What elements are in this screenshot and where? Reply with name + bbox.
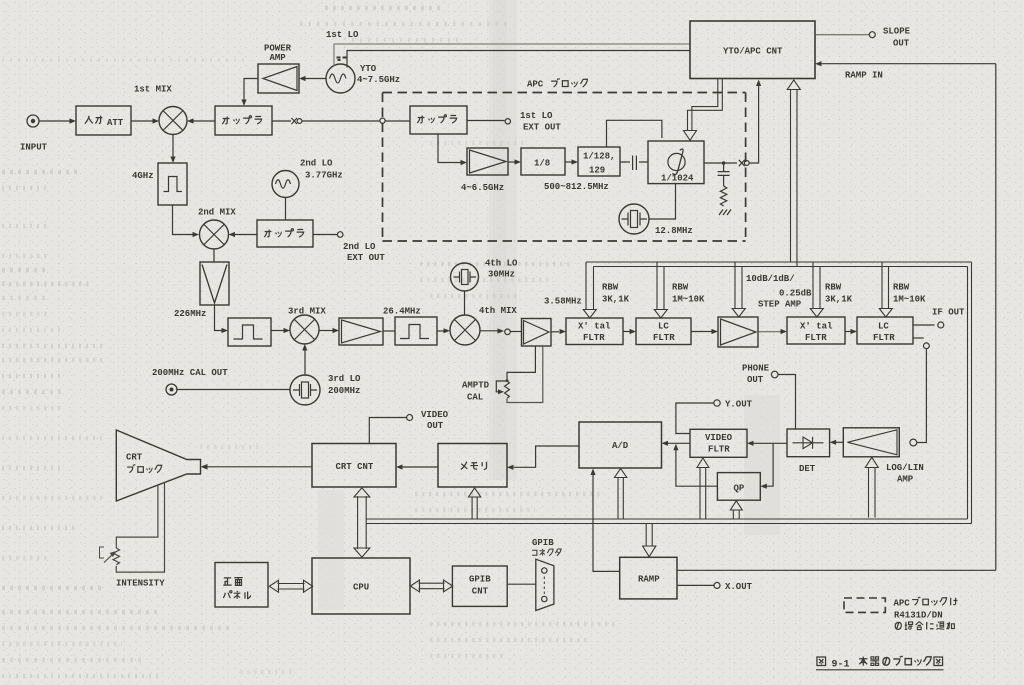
svg-text:GPIB: GPIB (532, 538, 554, 548)
wire ATT to 1st MIX (131, 120, 153, 122)
svg-text:LC: LC (878, 322, 889, 332)
svg-text:26.4MHz: 26.4MHz (383, 307, 421, 317)
connector X.OUT (714, 582, 720, 588)
wire CRT CNT to CRT (207, 466, 312, 468)
wire 1st MIX down to 4GHz filter (172, 135, 174, 158)
wire 3rd LO up to 3rd MIX (304, 350, 306, 375)
svg-text:OUT: OUT (893, 39, 910, 49)
kana カップラ coupler2 (417, 115, 456, 123)
connector circle at LOG/LIN right (910, 439, 917, 446)
crystal oscillator 12.8MHz (619, 204, 649, 234)
qp block QP (717, 473, 760, 501)
hollow double arrow front panel / CPU (269, 580, 312, 592)
svg-text:RBW: RBW (602, 283, 619, 293)
wire amp A3 to BPF2 (383, 330, 395, 332)
svg-text:226MHz: 226MHz (174, 309, 206, 319)
wire VIDEO FLTR to A/D (668, 442, 691, 444)
svg-text:EXT OUT: EXT OUT (347, 253, 385, 263)
node circle after 4th MIX (505, 329, 511, 335)
svg-text:3.77GHz: 3.77GHz (305, 171, 343, 181)
cpu block CPU (312, 558, 410, 614)
APC block dashed boundary (383, 93, 746, 242)
wire 4GHz filter to 2nd MIX (173, 205, 194, 235)
svg-text:3K,1K: 3K,1K (825, 295, 853, 305)
svg-text:0.25dB: 0.25dB (779, 289, 812, 299)
hollow arrow bus down to RAMP (643, 524, 656, 557)
svg-text:A/D: A/D (612, 441, 629, 451)
svg-text:CRT CNT: CRT CNT (336, 462, 374, 472)
mixer 2nd MIX (200, 220, 229, 249)
svg-text:CRT: CRT (126, 453, 143, 463)
svg-text:2nd LO: 2nd LO (300, 159, 333, 169)
svg-text:VIDEO: VIDEO (421, 410, 449, 420)
intensity circuit wires (116, 483, 164, 573)
connector IF OUT (938, 322, 944, 328)
connector 1st LO EXT OUT (505, 119, 510, 124)
svg-text:1st MIX: 1st MIX (134, 85, 172, 95)
svg-text:1/1024: 1/1024 (661, 174, 694, 184)
wire pad to node on APC boundary (302, 120, 380, 122)
gpib controller block GPIB CNT (452, 566, 507, 606)
svg-text:RBW: RBW (672, 283, 689, 293)
arrowhead into CRT CNT (396, 464, 403, 469)
log amp block LOG/LIN AMP (843, 428, 899, 457)
hollow bus YTO/APC CNT down to phase detector (684, 79, 723, 141)
svg-text:FLTR: FLTR (653, 333, 675, 343)
svg-text:LOG/LIN: LOG/LIN (886, 463, 924, 473)
wire 2nd MIX down to 226MHz filter (213, 249, 215, 262)
oscillator YTO 1st LO (326, 64, 355, 93)
arrowhead into A/D right (662, 441, 669, 446)
control bus right verticals (968, 262, 972, 524)
wire XTAL1 to LC1 (623, 331, 630, 333)
connector SLOPE OUT (869, 32, 875, 38)
wire RAMP upper output to right riser (677, 569, 996, 571)
svg-text:AMP: AMP (270, 53, 287, 63)
detector block DET (787, 429, 830, 457)
svg-text:LC: LC (658, 322, 669, 332)
wire BPF1 to 3rd MIX (271, 330, 284, 332)
svg-text:4th MIX: 4th MIX (479, 306, 517, 316)
wire coupler2 down to amp A4 (438, 134, 461, 163)
wire STEP AMP to XTAL FLTR2 (758, 331, 781, 333)
arrowhead into DET (830, 440, 837, 445)
coupling capacitor C1 (620, 156, 648, 171)
svg-text:YTO/APC CNT: YTO/APC CNT (723, 47, 783, 57)
arrowhead into amp A3 (333, 328, 340, 333)
control bus horizontal double line (586, 262, 972, 267)
wire LOG/LIN to DET (836, 441, 844, 443)
svg-text:INPUT: INPUT (20, 143, 48, 153)
hollow arrow RBW to XTAL FLTR2 (810, 262, 823, 317)
divider block 1/128,129 (578, 147, 620, 176)
svg-text:IF OUT: IF OUT (932, 308, 965, 318)
svg-text:X.OUT: X.OUT (725, 582, 753, 592)
svg-text:VIDEO: VIDEO (705, 433, 733, 443)
svg-text:AMP: AMP (897, 475, 914, 485)
mixer 4th MIX (450, 315, 480, 345)
filter BPF2 pulse 26.4MHz (395, 317, 437, 345)
arrowhead into STEP AMP (712, 329, 719, 334)
svg-text:FLTR: FLTR (708, 445, 730, 455)
hollow arrow bus to VIDEO FLTR (697, 458, 709, 519)
hollow arrow bus to LOG/LIN AMP (865, 457, 878, 517)
adc block A/D (579, 422, 662, 468)
wire XTAL2 to LC2 (845, 331, 851, 333)
ramp block RAMP (620, 557, 677, 599)
caption 図9-1 本器のブロック図 (817, 656, 943, 666)
potentiometer arrow INTENSITY (100, 547, 117, 563)
svg-text:AMPTD: AMPTD (462, 381, 490, 391)
connector 2nd LO EXT OUT (337, 232, 343, 238)
arrowhead into 1st MIX right (187, 118, 194, 123)
wire node to YTO/APC CNT bottom (749, 86, 758, 163)
svg-text:Y.OUT: Y.OUT (725, 400, 753, 410)
mixer 1st MIX (159, 107, 187, 135)
labels: bottom section (116, 453, 943, 621)
controller block YTO/APC CNT (690, 21, 815, 79)
hollow arrow bus to A/D (thick) (615, 469, 627, 520)
wire PHONE OUT tap from DET top (778, 375, 795, 430)
wire LC1 to STEP AMP (691, 331, 712, 333)
feedback wire 1/128 top to phase detector top (607, 120, 662, 147)
oscillator 4th LO 30MHz crystal (451, 263, 479, 291)
wire QP output to A/D input line (676, 449, 718, 486)
legend dashed box (844, 598, 885, 612)
wire 1/8 to 1/128 (565, 161, 572, 163)
svg-text:INTENSITY: INTENSITY (116, 579, 165, 589)
amplifier POWER AMP (258, 64, 299, 93)
wire A/D to memory (514, 446, 579, 467)
kanji の場合に追加 (legend line 3) (895, 622, 954, 630)
arrowhead into BPF1 (222, 328, 229, 333)
svg-text:X' tal: X' tal (800, 322, 833, 332)
coupler block カップラ 3 (257, 220, 313, 247)
front panel block 正面パネル (215, 563, 268, 608)
svg-text:CPU: CPU (353, 583, 369, 593)
ghost bleed-through speckle rows (2, 8, 615, 676)
labels: IF chain (544, 274, 965, 343)
hollow arrow to STEP AMP (732, 262, 745, 317)
svg-text:12.8MHz: 12.8MHz (655, 226, 693, 236)
filter block LC FLTR2 (857, 317, 913, 344)
arrowhead into CRT neck (201, 464, 208, 470)
wire LC2 to IF OUT (913, 324, 935, 326)
hollow arrow bus to QP (730, 501, 742, 519)
kana メモリ (memory) (461, 462, 487, 470)
arrowhead into LC FLTR2 (851, 329, 858, 334)
divider block 1/8 (521, 148, 565, 175)
svg-text:1/8: 1/8 (534, 159, 550, 169)
arrowhead into 2nd MIX (193, 232, 200, 237)
svg-text:ATT: ATT (107, 118, 124, 128)
arrowhead into 3rd MIX bottom (302, 344, 307, 351)
svg-text:500~812.5MHz: 500~812.5MHz (544, 182, 609, 192)
arrowhead before pad node (498, 328, 505, 333)
svg-text:4th LO: 4th LO (485, 259, 518, 269)
svg-text:4GHz: 4GHz (132, 171, 154, 181)
wire RAMP to A/D (thin) with arrow (593, 475, 620, 572)
scanner noise band lower-middle (744, 395, 780, 535)
svg-text:FLTR: FLTR (873, 333, 895, 343)
svg-text:3.58MHz: 3.58MHz (544, 297, 582, 307)
phase detector 1/1024 (648, 141, 704, 184)
arrowhead into 3rd MIX (284, 328, 291, 333)
labels: APC block (461, 80, 694, 237)
wire 226MHz filter to BPF1 (215, 305, 223, 331)
arrowhead into POWER AMP (299, 76, 306, 81)
hollow arrow RBW to XTAL FLTR1 (583, 262, 596, 318)
svg-text:OUT: OUT (747, 375, 764, 385)
mixer 3rd MIX (290, 315, 319, 344)
arrowhead into XTAL FLTR1 (560, 329, 567, 334)
potentiometer AMPTD CAL (496, 346, 543, 403)
wire CAL OUT to 3rd LO (177, 389, 290, 391)
hollow bus up into YTO/APC CNT bottom (787, 80, 800, 267)
kana カップラ coupler1 (222, 116, 261, 124)
wire Y.OUT tap (676, 403, 714, 434)
svg-text:R4131D/DN: R4131D/DN (894, 611, 943, 621)
wire phase detector output to node (704, 162, 737, 164)
arrowhead into coupler1 top (241, 100, 246, 107)
arrowhead into LC FLTR1 (630, 329, 637, 334)
svg-text:OUT: OUT (427, 421, 444, 431)
oscillator 2nd LO (272, 171, 299, 198)
filter BPF1 pulse (228, 318, 271, 346)
arrowhead into 2nd MIX right (229, 232, 236, 237)
svg-text:2nd LO: 2nd LO (343, 242, 376, 252)
svg-text:CNT: CNT (472, 587, 489, 597)
wire node down to LOG/LIN input (917, 349, 926, 443)
svg-text:DET: DET (799, 464, 816, 474)
svg-text:2nd MIX: 2nd MIX (198, 208, 236, 218)
filter block XTAL FLTR2 (787, 317, 845, 344)
svg-text:9-1: 9-1 (832, 660, 850, 671)
svg-text:1st LO: 1st LO (520, 111, 553, 121)
filter 4GHz bandpass (158, 163, 187, 205)
oscillator 3rd LO 200MHz crystal (290, 375, 320, 405)
kanji 正面 kana パネル (front panel) (223, 578, 251, 599)
svg-text:FLTR: FLTR (805, 333, 827, 343)
wire RAMP IN from right edge (821, 63, 996, 65)
attenuator block 入力ATT (76, 106, 131, 135)
svg-text:1M~10K: 1M~10K (672, 295, 705, 305)
svg-text:APC: APC (527, 80, 544, 90)
scanner noise band vertical center-left (489, 0, 517, 480)
wire YTO top to YTO/APC CNT (line A) (334, 44, 690, 67)
filter block XTAL FLTR1 (566, 318, 623, 345)
connector VIDEO OUT (407, 415, 413, 421)
wire 2nd LO to coupler3 (285, 198, 287, 221)
memory block メモリ (438, 444, 507, 488)
svg-text:PHONE: PHONE (742, 364, 770, 374)
wire GPIB CNT to connector (507, 583, 536, 585)
kana カップラ coupler3 (264, 229, 303, 237)
capacitor C2 to ground (718, 163, 730, 186)
svg-text:SLOPE: SLOPE (883, 27, 911, 37)
arrowhead into VIDEO FLTR (747, 441, 754, 446)
amplifier A5 (522, 319, 552, 347)
arrowhead into 4GHz filter (170, 157, 175, 164)
arrowhead into ATT (70, 118, 77, 123)
svg-text:GPIB: GPIB (469, 575, 491, 585)
arrowhead up into YTO/APC CNT (756, 80, 761, 87)
connector pad X-circle (292, 118, 302, 124)
boundary pad X-circle on APC edge (739, 160, 749, 166)
wire node to coupler2 (385, 120, 410, 122)
wire 4th LO to 4th MIX (464, 291, 466, 315)
svg-text:EXT OUT: EXT OUT (523, 123, 561, 133)
svg-text:3rd MIX: 3rd MIX (288, 307, 326, 317)
tick marks at YTO top (337, 58, 347, 61)
wire 3rd MIX to amp A3 (319, 330, 333, 332)
amplifier A3 (339, 318, 383, 345)
arrowhead into 1st MIX (153, 118, 160, 123)
wire SLOPE OUT (815, 34, 869, 36)
wire YTO to POWER AMP (305, 78, 326, 80)
svg-text:200MHz CAL OUT: 200MHz CAL OUT (152, 368, 228, 378)
arrowhead into 4th MIX (444, 328, 451, 333)
svg-text:RBW: RBW (893, 283, 910, 293)
control bus bottom double line (366, 519, 971, 524)
kana コネクタ (GPIB connector) (532, 549, 561, 556)
arrowhead into 1/8 (515, 159, 522, 164)
node circle below IF OUT (924, 343, 930, 349)
svg-text:4~7.5GHz: 4~7.5GHz (357, 75, 400, 85)
arrowhead into QP right (760, 484, 767, 489)
caption underline (816, 669, 944, 671)
arrowhead into XTAL FLTR2 (781, 329, 788, 334)
wire amp A5 to XTAL FLTR1 (551, 331, 559, 333)
svg-text:1st LO: 1st LO (326, 30, 359, 40)
arrowhead up at junction (673, 444, 678, 451)
wire branch DET output down to QP (766, 443, 773, 486)
svg-text:X' tal: X' tal (578, 322, 611, 332)
wire node to amp A5 (511, 331, 522, 333)
kana ブロック (APC block label) (551, 78, 587, 87)
wire 12.8MHz to phase detector bottom (649, 184, 676, 219)
kana ブロック (CRT block) (127, 464, 162, 473)
node circle on dashed boundary (380, 118, 385, 123)
wire coupler3 to 2nd LO EXT OUT (313, 234, 337, 236)
labels: video section (421, 364, 924, 593)
wire memory to CRT CNT (403, 466, 439, 468)
svg-text:RAMP: RAMP (638, 575, 660, 585)
resistor INTENSITY (113, 548, 119, 565)
gpib connector D-sub (536, 559, 554, 610)
labels: top-left chain (20, 30, 518, 403)
svg-text:RBW: RBW (825, 283, 842, 293)
coupler block カップラ 2 (410, 106, 467, 134)
labels: YTO/APC CNT and right (723, 27, 911, 81)
wire VIDEO OUT tap (369, 418, 406, 444)
kana ブロックは (legend line 1) (912, 597, 957, 606)
svg-text:FLTR: FLTR (583, 333, 605, 343)
wire 4th MIX to pad node (480, 330, 498, 332)
svg-text:STEP AMP: STEP AMP (758, 300, 802, 310)
svg-text:RAMP IN: RAMP IN (845, 71, 883, 81)
crt funnel CRTブロック (116, 430, 200, 501)
arrowhead into 1/128 (572, 159, 579, 164)
svg-text:1/128,: 1/128, (583, 152, 615, 162)
wire POWER AMP to coupler1 (244, 79, 258, 101)
svg-text:3K,1K: 3K,1K (602, 295, 630, 305)
svg-text:CAL: CAL (467, 393, 483, 403)
svg-text:10dB/1dB/: 10dB/1dB/ (746, 274, 795, 284)
crt controller block CRT CNT (312, 444, 396, 488)
connector 200MHz CAL OUT (166, 384, 177, 395)
svg-text:129: 129 (589, 166, 605, 176)
kanji 入力 (input ATT) (85, 116, 103, 124)
hollow arrow RBW to LC FLTR1 (654, 262, 667, 318)
svg-text:YTO: YTO (360, 64, 377, 74)
wire RAMP IN vertical down right side (995, 64, 997, 571)
junction dot (722, 161, 726, 165)
filter block LC FLTR1 (636, 318, 691, 345)
svg-text:3rd LO: 3rd LO (328, 374, 361, 384)
wire coupler1 right to pad (272, 120, 291, 122)
wire coupler3 to 2nd MIX (235, 234, 258, 236)
INPUT connector J1 (27, 115, 39, 127)
arrowhead into YTO/APC CNT right (815, 61, 822, 66)
wire RAMP to X.OUT (677, 584, 714, 586)
filter 226MHz bandpass (200, 262, 229, 305)
resistor R1 (720, 186, 726, 206)
svg-text:APC: APC (894, 599, 911, 609)
wire DET to VIDEO FLTR (753, 442, 787, 444)
connector Y.OUT (714, 400, 720, 406)
video filter block VIDEO FLTR (690, 429, 747, 457)
connector PHONE OUT (771, 371, 778, 378)
svg-text:POWER: POWER (264, 44, 292, 54)
amplifier STEP AMP (718, 317, 758, 347)
hollow arrow RBW to LC FLTR2 (879, 262, 892, 317)
arrowhead into memory right (507, 465, 514, 470)
svg-text:4~6.5GHz: 4~6.5GHz (461, 183, 504, 193)
svg-text:200MHz: 200MHz (328, 386, 360, 396)
svg-text:QP: QP (734, 484, 745, 494)
wire LC2 lower tap to node (913, 337, 924, 339)
arrowhead into amp A4 (461, 160, 468, 165)
ground (719, 210, 731, 216)
wire coupler1 to 1st MIX (193, 120, 215, 122)
arrowhead into A/D bottom (590, 469, 595, 476)
hollow arrow bus up to memory (469, 488, 481, 519)
amplifier A4 4-6.5GHz (467, 148, 508, 175)
wire BPF2 to 4th MIX (437, 330, 444, 332)
svg-text:1M~10K: 1M~10K (893, 295, 926, 305)
wire A4 to divider 1/8 (508, 161, 515, 163)
wire YTO top to YTO/APC CNT (line B) (347, 51, 690, 68)
wire INPUT to ATT (39, 120, 70, 122)
coupler block カップラ 1 (215, 106, 272, 135)
hollow double arrow CPU / GPIB CNT (410, 580, 452, 592)
wire coupler2 to 1st LO EXT OUT (467, 120, 505, 122)
hollow double arrow CRT CNT / CPU (354, 488, 370, 557)
svg-text:30MHz: 30MHz (488, 270, 515, 280)
